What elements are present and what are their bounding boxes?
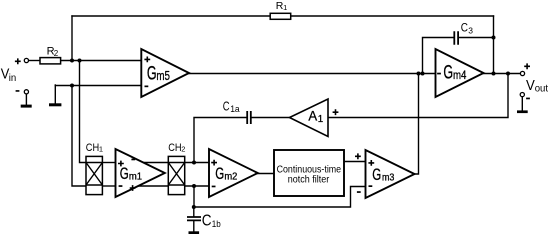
wire A1 input feedback [328, 74, 508, 118]
ground Vout- [517, 110, 528, 113]
svg-text:C: C [202, 213, 212, 230]
wire notch to Gm3+ [344, 161, 366, 163]
svg-text:C: C [223, 98, 230, 113]
wire riser to CH1 bottom port [72, 86, 86, 187]
node Gm4 out [492, 72, 496, 76]
node R2 out a [70, 59, 74, 63]
wire CH2 to Gm2- [185, 185, 209, 187]
wire ground2 riser [54, 85, 56, 103]
svg-text:m3: m3 [382, 173, 395, 184]
terminal Vin- [24, 90, 28, 94]
terminal Vout+ [520, 71, 524, 75]
svg-text:G: G [120, 165, 129, 183]
wire ground to Gm5- [55, 85, 141, 87]
svg-text:1: 1 [283, 3, 287, 12]
capacitor C1a [247, 111, 251, 124]
label Gm5 + sign [144, 57, 150, 63]
label Gm3 + inside sign [368, 160, 374, 166]
node C1b [192, 205, 196, 209]
resistor R1 [270, 13, 291, 19]
op-amp Gm3 [366, 150, 415, 198]
svg-text:G: G [147, 63, 157, 85]
terminal Vin+ [24, 58, 28, 62]
svg-text:in: in [9, 72, 17, 84]
label Gm1 - output sign [131, 159, 135, 161]
wire top bus right [291, 15, 494, 17]
op-amp Gm2 [209, 149, 258, 197]
svg-text:m2: m2 [224, 172, 237, 183]
node R2 out b [78, 59, 82, 63]
svg-text:out: out [535, 83, 548, 94]
wire Vin+ to R2 [28, 60, 39, 62]
ground Vin- [21, 105, 32, 108]
svg-text:2: 2 [181, 145, 185, 154]
svg-text:m5: m5 [156, 68, 170, 83]
wire Gm5 out to Gm4 [189, 73, 436, 75]
wire Gm3 out [415, 74, 419, 175]
label Gm1 + output sign [130, 185, 136, 191]
wire top bus left [72, 15, 270, 17]
label Vin + sign [15, 58, 21, 64]
capacitor C1b [187, 217, 201, 220]
op-amp Gm4 [436, 49, 484, 97]
wire CH1 to Gm1 top [103, 162, 116, 164]
wire riser top-right [493, 16, 495, 74]
svg-text:A: A [308, 108, 318, 123]
op-amp Gm1 [116, 149, 165, 197]
wire CH1 to Gm1 bottom [103, 185, 116, 187]
chopper CH2 [168, 156, 184, 194]
label Gm1 + input sign [118, 161, 124, 167]
node junction dots [70, 36, 510, 210]
node Gm2- [192, 184, 196, 188]
op-amp A1 (points left) [290, 99, 329, 137]
ground C1b [189, 231, 200, 234]
chopper CH1 [86, 156, 102, 194]
svg-text:m1: m1 [129, 172, 142, 183]
label Vin - sign [16, 90, 20, 92]
svg-text:m4: m4 [453, 68, 466, 82]
svg-text:1b: 1b [212, 219, 221, 230]
node Gm2+ [192, 161, 196, 165]
label Gm1 - input sign [119, 185, 123, 187]
wire Gm4 out to Vout [484, 73, 521, 75]
label Gm3 - inside sign [369, 185, 373, 187]
label Gm3 - outside sign [357, 191, 361, 193]
wire Gm1 out top to CH2 [139, 162, 168, 164]
svg-text:CH: CH [86, 142, 99, 154]
label Gm2 - sign [212, 186, 216, 188]
wire bypass C1b [193, 186, 195, 207]
wire C3 branch [423, 38, 454, 74]
wire Gm2 to notch [258, 173, 274, 175]
node gnd wire [70, 84, 74, 88]
ground node2 [49, 103, 61, 106]
svg-text:1: 1 [318, 114, 323, 125]
svg-text:C: C [461, 21, 468, 35]
label Gm2 + sign [211, 160, 217, 166]
svg-text:CH: CH [168, 142, 181, 154]
wire bypass bottom [194, 187, 366, 208]
wire CH2 to Gm2+ [185, 162, 209, 164]
node Gm3 out [417, 72, 421, 76]
wire Vout- ground [521, 97, 523, 111]
capacitor C3 [454, 31, 458, 45]
label Gm4 - sign [437, 73, 441, 75]
svg-text:1a: 1a [230, 104, 240, 114]
svg-text:1: 1 [99, 145, 103, 154]
op-amp Gm5 [141, 49, 189, 97]
label A1 + sign [333, 109, 339, 115]
wire riser to CH1 top port [80, 61, 87, 163]
node C3 left [421, 72, 425, 76]
node C3 right [492, 36, 496, 40]
wire R2 to Gm5+ [61, 60, 142, 62]
wire C3 right [459, 37, 493, 39]
svg-text:G: G [215, 165, 224, 183]
wire Gm1 out bottom to CH2 [139, 185, 168, 187]
wire C1a riser [194, 118, 246, 163]
terminal Vout- [520, 93, 524, 97]
label Gm5 - sign [145, 86, 149, 88]
wire C1b bottom [193, 221, 195, 231]
svg-text:notch filter: notch filter [288, 174, 330, 185]
wire C1b top [193, 207, 195, 216]
label Gm3 + outside sign [355, 153, 361, 159]
svg-text:G: G [443, 62, 453, 84]
wire C1a to A1 [252, 117, 290, 119]
svg-text:3: 3 [468, 26, 473, 36]
label Vout + sign [524, 63, 530, 69]
label Vout - sign [526, 98, 530, 100]
svg-text:2: 2 [54, 49, 59, 58]
node feedback [506, 72, 510, 76]
wire riser top-left [71, 16, 73, 61]
resistor R2 [40, 58, 61, 64]
svg-text:G: G [372, 166, 381, 184]
notch filter box [274, 150, 344, 196]
wire Vin- ground [25, 94, 27, 105]
